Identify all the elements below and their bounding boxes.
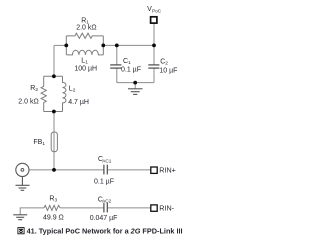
wire from left corner to R1/L1 left node (54, 44, 66, 46)
svg-text:4.7 µH: 4.7 µH (68, 99, 89, 106)
node C2 VPoC tap (152, 44, 156, 48)
svg-text:41. Typical PoC Network for a: 41. Typical PoC Network for a 2G FPD-Lin… (27, 227, 183, 236)
resistor R1 (66, 33, 103, 38)
svg-text:49.9 Ω: 49.9 Ω (43, 215, 64, 222)
node ground tap on cap rail (133, 81, 137, 85)
R2/L2 bottom bracket (44, 111, 63, 113)
wire C1 top stem (116, 45, 118, 64)
capacitor CAC2 plates (104, 203, 107, 213)
wire ground stem under cap rail (134, 83, 136, 89)
caption figure glyph (CJK tu) (18, 228, 24, 234)
ground under coax connector (16, 177, 30, 191)
RIN- terminal square (151, 205, 157, 211)
wire ground corner left of R3 (20, 208, 44, 215)
wire VPoC stem (153, 23, 155, 45)
svg-text:AC2: AC2 (102, 199, 112, 204)
svg-text:C2: C2 (160, 58, 168, 66)
ground left of R3 (13, 215, 27, 220)
resistor R2 (41, 76, 46, 111)
capacitor C1 plates (110, 65, 121, 68)
wire capacitor bottom rail (117, 82, 154, 84)
svg-text:AC1: AC1 (102, 158, 112, 163)
wire CAC1 to RIN+ terminal (108, 169, 151, 171)
ground under capacitors (128, 89, 143, 95)
svg-text:RIN-: RIN- (159, 204, 174, 213)
wire C2 bottom stem (153, 68, 155, 82)
svg-text:10 µF: 10 µF (159, 67, 177, 74)
svg-text:0.047 µF: 0.047 µF (90, 215, 118, 222)
R1/L1 left bracket (65, 36, 67, 55)
node RIN+ line junction (52, 168, 56, 172)
svg-text:0.1 µF: 0.1 µF (94, 178, 114, 185)
VPoC terminal square (151, 17, 157, 23)
svg-text:0.1 µF: 0.1 µF (121, 66, 141, 73)
wire left vertical to R2/L2 top (53, 45, 55, 76)
svg-text:L2: L2 (69, 85, 76, 93)
wire R2/L2 bottom through FB1 to RIN+ junction (53, 112, 55, 170)
capacitor CAC1 plates (104, 165, 107, 175)
svg-text:RIN+: RIN+ (159, 166, 176, 175)
node R1/L1 left (64, 44, 68, 48)
wire top rail to VPoC node (103, 44, 154, 46)
node R2/L2 top (52, 74, 56, 78)
capacitor C2 plates (148, 65, 159, 68)
wire C1 bottom stem (116, 68, 118, 82)
RIN+ terminal square (151, 167, 157, 173)
wire R3 to CAC2 left plate (60, 207, 103, 209)
svg-text:PoC: PoC (152, 8, 162, 13)
resistor R3 (44, 205, 60, 210)
svg-text:2.0 kΩ: 2.0 kΩ (76, 24, 96, 31)
coax connector J1 (16, 163, 29, 176)
inductor L2 (63, 76, 66, 111)
wire C2 top stem (153, 45, 155, 64)
R1/L1 right bracket (102, 36, 104, 55)
ferrite bead FB1 (51, 132, 57, 152)
node R2/L2 bottom (52, 110, 56, 114)
svg-text:100 µH: 100 µH (74, 65, 97, 72)
svg-text:C1: C1 (123, 58, 131, 66)
svg-text:FB1: FB1 (33, 139, 45, 147)
node R1/L1 right (101, 44, 105, 48)
wire coax to CAC1 left plate (29, 169, 103, 171)
svg-text:R2: R2 (30, 85, 38, 93)
svg-text:R3: R3 (49, 195, 57, 203)
node C1 tap (115, 44, 119, 48)
R2/L2 top bracket (44, 75, 63, 77)
wire CAC2 to RIN- terminal (108, 207, 151, 209)
svg-text:2.0 kΩ: 2.0 kΩ (18, 98, 38, 105)
inductor L1 (66, 50, 103, 55)
